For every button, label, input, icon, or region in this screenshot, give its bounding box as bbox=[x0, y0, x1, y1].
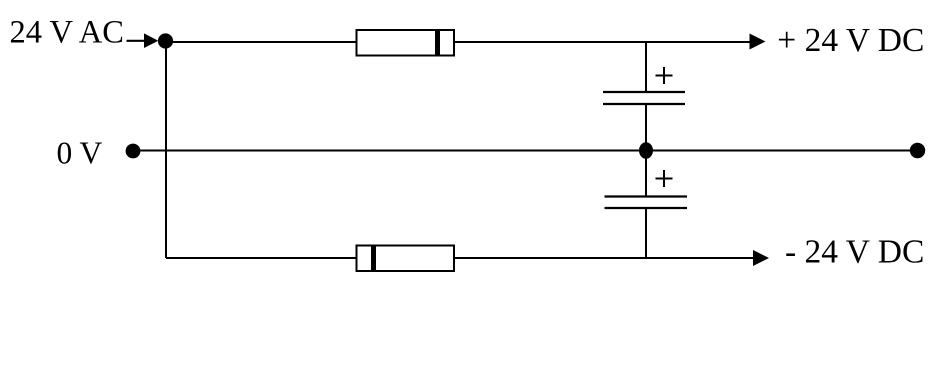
svg-text:- 24 V DC: - 24 V DC bbox=[785, 233, 924, 270]
svg-text:0 V: 0 V bbox=[57, 136, 103, 171]
svg-text:24 V AC: 24 V AC bbox=[10, 15, 124, 51]
svg-text:+ 24 V DC: + 24 V DC bbox=[777, 22, 924, 59]
